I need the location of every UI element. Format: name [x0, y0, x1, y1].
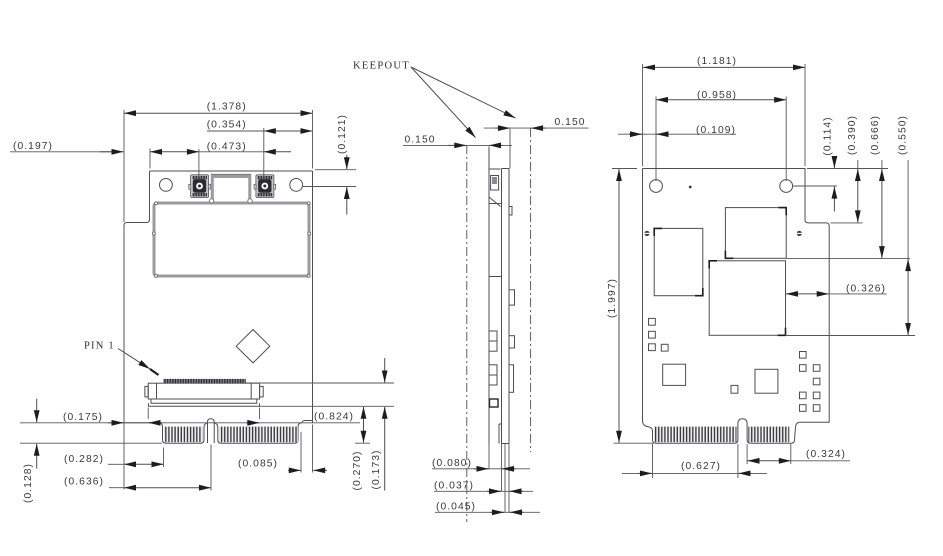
- svg-text:(0.128): (0.128): [23, 463, 34, 503]
- svg-text:(0.550): (0.550): [898, 115, 909, 155]
- svg-text:(0.114): (0.114): [823, 116, 834, 155]
- svg-text:PIN 1: PIN 1: [84, 341, 115, 352]
- svg-text:0.150: 0.150: [554, 117, 585, 128]
- svg-text:(1.997): (1.997): [607, 278, 618, 318]
- svg-text:(0.666): (0.666): [870, 115, 881, 155]
- svg-text:(0.045): (0.045): [436, 501, 476, 512]
- svg-text:(0.121): (0.121): [337, 114, 348, 154]
- svg-text:(0.324): (0.324): [806, 449, 846, 460]
- svg-text:(0.270): (0.270): [352, 451, 363, 491]
- svg-text:(0.636): (0.636): [64, 477, 104, 488]
- svg-text:(0.326): (0.326): [846, 283, 886, 294]
- svg-text:(0.958): (0.958): [697, 90, 737, 101]
- svg-text:(0.824): (0.824): [314, 412, 354, 423]
- svg-text:(0.085): (0.085): [238, 458, 278, 469]
- svg-text:KEEPOUT: KEEPOUT: [353, 61, 410, 72]
- svg-text:(0.037): (0.037): [434, 480, 474, 491]
- svg-text:(0.282): (0.282): [64, 454, 104, 465]
- svg-text:(0.390): (0.390): [847, 115, 858, 155]
- svg-text:(0.627): (0.627): [681, 461, 721, 472]
- svg-text:(0.173): (0.173): [371, 450, 382, 490]
- svg-text:(0.080): (0.080): [432, 458, 472, 469]
- svg-text:(0.354): (0.354): [207, 120, 247, 131]
- svg-text:(0.197): (0.197): [13, 141, 53, 152]
- svg-text:(0.473): (0.473): [207, 141, 247, 152]
- svg-text:(1.181): (1.181): [697, 56, 737, 67]
- svg-text:(0.109): (0.109): [696, 125, 736, 136]
- svg-text:(0.175): (0.175): [63, 412, 103, 423]
- svg-text:(1.378): (1.378): [207, 102, 247, 113]
- svg-text:0.150: 0.150: [404, 134, 435, 145]
